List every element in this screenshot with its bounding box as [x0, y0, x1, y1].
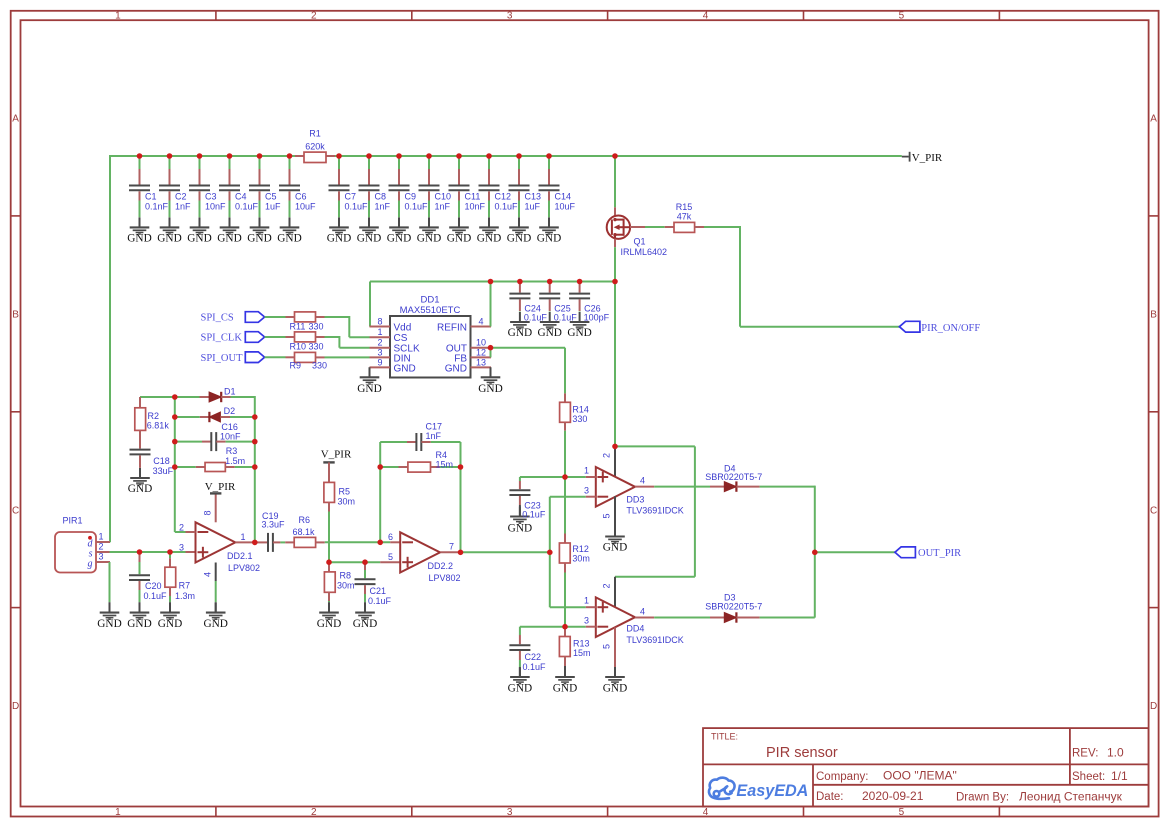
svg-text:LPV802: LPV802 — [429, 573, 461, 583]
svg-text:C22: C22 — [525, 652, 542, 662]
svg-text:C16: C16 — [221, 422, 238, 432]
svg-text:SPI_CS: SPI_CS — [201, 313, 234, 324]
svg-text:R7: R7 — [179, 581, 191, 591]
svg-text:V_PIR: V_PIR — [912, 152, 943, 164]
svg-text:R1: R1 — [309, 129, 321, 139]
svg-text:330: 330 — [572, 414, 587, 424]
svg-text:GND: GND — [158, 618, 182, 630]
svg-text:3: 3 — [507, 807, 513, 818]
svg-text:10: 10 — [476, 338, 486, 348]
svg-text:C21: C21 — [370, 586, 387, 596]
svg-text:Company:: Company: — [816, 771, 868, 783]
svg-text:PIR1: PIR1 — [62, 516, 82, 526]
svg-text:GND: GND — [357, 383, 381, 395]
svg-text:4: 4 — [203, 572, 213, 577]
svg-text:3: 3 — [507, 11, 513, 22]
svg-text:D: D — [1150, 701, 1157, 712]
svg-text:Vdd: Vdd — [394, 323, 412, 334]
svg-text:D: D — [12, 701, 19, 712]
svg-text:C4: C4 — [235, 192, 247, 202]
svg-text:SPI_OUT: SPI_OUT — [201, 353, 244, 364]
svg-text:R10: R10 — [290, 341, 307, 351]
svg-text:10uF: 10uF — [555, 202, 576, 212]
svg-text:GND: GND — [553, 683, 577, 695]
svg-text:GND: GND — [417, 233, 441, 245]
svg-text:620k: 620k — [305, 141, 325, 151]
svg-text:3: 3 — [179, 543, 184, 553]
svg-text:15m: 15m — [573, 648, 591, 658]
svg-text:1.0: 1.0 — [1107, 746, 1124, 760]
svg-text:15m: 15m — [436, 460, 454, 470]
svg-text:GND: GND — [478, 383, 502, 395]
svg-text:4: 4 — [640, 606, 645, 616]
svg-text:1nF: 1nF — [426, 431, 442, 441]
svg-text:R5: R5 — [339, 487, 351, 497]
svg-text:C14: C14 — [555, 192, 572, 202]
svg-text:10nF: 10nF — [465, 202, 486, 212]
svg-text:33uF: 33uF — [153, 466, 174, 476]
svg-text:GND: GND — [277, 233, 301, 245]
svg-text:C12: C12 — [495, 192, 512, 202]
svg-text:2: 2 — [99, 542, 104, 552]
svg-text:330: 330 — [309, 341, 324, 351]
svg-text:3.3uF: 3.3uF — [262, 519, 286, 529]
svg-text:TITLE:: TITLE: — [711, 732, 738, 742]
svg-text:1.3m: 1.3m — [175, 591, 195, 601]
svg-text:47k: 47k — [677, 212, 692, 222]
svg-text:0.1uF: 0.1uF — [523, 662, 547, 672]
svg-text:GND: GND — [387, 233, 411, 245]
svg-text:SBR0220T5-7: SBR0220T5-7 — [705, 472, 762, 482]
svg-text:1: 1 — [241, 532, 246, 542]
svg-text:SBR0220T5-7: SBR0220T5-7 — [705, 601, 762, 611]
svg-text:PIR_ON/OFF: PIR_ON/OFF — [921, 323, 980, 334]
svg-text:5: 5 — [602, 513, 612, 518]
svg-text:GND: GND — [203, 618, 227, 630]
svg-text:5: 5 — [388, 552, 393, 562]
svg-text:100pF: 100pF — [584, 313, 610, 323]
svg-text:GND: GND — [247, 233, 271, 245]
svg-text:8: 8 — [203, 510, 213, 515]
svg-text:C20: C20 — [145, 581, 162, 591]
svg-text:MAX5510ETC: MAX5510ETC — [400, 305, 461, 316]
svg-text:1: 1 — [377, 327, 382, 337]
svg-text:2: 2 — [311, 11, 317, 22]
svg-text:C8: C8 — [375, 192, 387, 202]
svg-text:10nF: 10nF — [205, 202, 226, 212]
svg-text:GND: GND — [508, 327, 532, 339]
svg-text:GND: GND — [357, 233, 381, 245]
svg-text:C1: C1 — [145, 192, 157, 202]
svg-text:R2: R2 — [148, 411, 160, 421]
svg-text:C11: C11 — [465, 192, 481, 202]
svg-text:R6: R6 — [299, 515, 311, 525]
svg-text:EasyEDA: EasyEDA — [736, 782, 808, 800]
svg-text:GND: GND — [327, 233, 351, 245]
svg-text:V_PIR: V_PIR — [321, 449, 352, 461]
svg-text:R11: R11 — [290, 321, 306, 331]
svg-text:1nF: 1nF — [375, 202, 391, 212]
svg-text:GND: GND — [445, 363, 467, 374]
svg-text:6.81k: 6.81k — [147, 421, 170, 431]
svg-text:GND: GND — [537, 327, 561, 339]
svg-text:4: 4 — [703, 11, 709, 22]
svg-text:R13: R13 — [573, 638, 590, 648]
svg-text:2: 2 — [602, 453, 612, 458]
svg-text:C7: C7 — [345, 192, 357, 202]
svg-text:C6: C6 — [295, 192, 307, 202]
svg-text:DD4: DD4 — [626, 624, 644, 634]
svg-text:2: 2 — [377, 338, 382, 348]
svg-text:8: 8 — [377, 317, 382, 327]
svg-text:TLV3691IDCK: TLV3691IDCK — [626, 635, 683, 645]
svg-text:1: 1 — [584, 466, 589, 476]
svg-text:3: 3 — [584, 616, 589, 626]
svg-text:C17: C17 — [426, 422, 443, 432]
svg-text:1uF: 1uF — [525, 202, 541, 212]
svg-text:Леонид Степанчук: Леонид Степанчук — [1019, 790, 1123, 804]
svg-text:A: A — [12, 114, 19, 125]
svg-text:TLV3691IDCK: TLV3691IDCK — [626, 505, 683, 515]
svg-text:30m: 30m — [338, 497, 356, 507]
svg-text:4: 4 — [478, 317, 483, 327]
svg-text:1uF: 1uF — [265, 202, 281, 212]
svg-text:D2: D2 — [224, 406, 236, 416]
svg-text:R12: R12 — [572, 544, 589, 554]
svg-text:B: B — [12, 309, 19, 320]
svg-text:C3: C3 — [205, 192, 217, 202]
svg-text:C5: C5 — [265, 192, 277, 202]
svg-text:2: 2 — [311, 807, 317, 818]
svg-text:GND: GND — [127, 233, 151, 245]
svg-text:Drawn By:: Drawn By: — [956, 792, 1009, 804]
svg-text:1nF: 1nF — [175, 202, 191, 212]
svg-text:3: 3 — [99, 552, 104, 562]
svg-text:SPI_CLK: SPI_CLK — [201, 333, 243, 344]
svg-text:0.1uF: 0.1uF — [522, 510, 546, 520]
svg-text:R15: R15 — [676, 202, 693, 212]
svg-text:R3: R3 — [226, 446, 238, 456]
svg-text:68.1k: 68.1k — [293, 527, 316, 537]
svg-text:GND: GND — [317, 618, 341, 630]
svg-text:DD1: DD1 — [420, 295, 439, 306]
svg-text:D1: D1 — [224, 387, 236, 397]
svg-text:2: 2 — [602, 583, 612, 588]
svg-text:GND: GND — [537, 233, 561, 245]
svg-text:GND: GND — [127, 618, 151, 630]
svg-text:C13: C13 — [525, 192, 542, 202]
svg-text:GND: GND — [603, 541, 627, 553]
svg-text:30m: 30m — [572, 554, 590, 564]
svg-text:1/1: 1/1 — [1111, 769, 1128, 783]
svg-text:0.1uF: 0.1uF — [235, 202, 259, 212]
svg-text:GND: GND — [157, 233, 181, 245]
svg-text:0.1uF: 0.1uF — [144, 591, 168, 601]
svg-text:PIR sensor: PIR sensor — [766, 745, 838, 761]
svg-text:0.1nF: 0.1nF — [145, 202, 169, 212]
svg-text:ООО "ЛЕМА": ООО "ЛЕМА" — [883, 769, 957, 783]
svg-text:C9: C9 — [405, 192, 417, 202]
svg-text:IRLML6402: IRLML6402 — [621, 247, 668, 257]
svg-text:OUT_PIR: OUT_PIR — [918, 548, 961, 559]
svg-text:g: g — [88, 558, 93, 569]
svg-text:Sheet:: Sheet: — [1072, 771, 1105, 783]
svg-text:5: 5 — [602, 644, 612, 649]
svg-text:C18: C18 — [153, 456, 170, 466]
svg-text:R8: R8 — [340, 570, 352, 580]
svg-text:4: 4 — [640, 476, 645, 486]
svg-text:0.1uF: 0.1uF — [405, 202, 429, 212]
svg-text:GND: GND — [507, 233, 531, 245]
svg-text:GND: GND — [508, 683, 532, 695]
svg-text:REV:: REV: — [1072, 748, 1098, 760]
svg-text:GND: GND — [97, 618, 121, 630]
svg-text:Q1: Q1 — [634, 237, 646, 247]
svg-text:GND: GND — [447, 233, 471, 245]
svg-text:GND: GND — [187, 233, 211, 245]
svg-text:330: 330 — [309, 321, 324, 331]
svg-text:GND: GND — [128, 483, 152, 495]
svg-text:CS: CS — [394, 333, 408, 344]
svg-text:330: 330 — [312, 361, 327, 371]
svg-text:0.1uF: 0.1uF — [495, 202, 519, 212]
svg-text:1nF: 1nF — [435, 202, 451, 212]
svg-text:2: 2 — [179, 523, 184, 533]
svg-text:GND: GND — [353, 618, 377, 630]
svg-text:DD2.1: DD2.1 — [227, 551, 253, 561]
svg-text:V_PIR: V_PIR — [205, 481, 236, 493]
svg-text:DD2.2: DD2.2 — [428, 561, 454, 571]
svg-text:C10: C10 — [435, 192, 452, 202]
svg-text:C2: C2 — [175, 192, 187, 202]
svg-text:7: 7 — [449, 542, 454, 552]
svg-text:3: 3 — [584, 486, 589, 496]
svg-text:GND: GND — [603, 683, 627, 695]
svg-text:R9: R9 — [290, 361, 302, 371]
svg-text:0.1uF: 0.1uF — [368, 596, 392, 606]
svg-text:A: A — [1150, 114, 1157, 125]
svg-text:3: 3 — [377, 347, 382, 357]
svg-text:R4: R4 — [436, 450, 448, 460]
svg-text:GND: GND — [567, 327, 591, 339]
svg-text:GND: GND — [508, 522, 532, 534]
svg-text:10uF: 10uF — [295, 202, 316, 212]
svg-text:REFIN: REFIN — [437, 323, 467, 334]
svg-text:10nF: 10nF — [220, 432, 241, 442]
svg-text:5: 5 — [899, 807, 905, 818]
svg-text:2020-09-21: 2020-09-21 — [862, 789, 924, 803]
svg-text:12: 12 — [476, 347, 486, 357]
svg-text:1: 1 — [115, 11, 121, 22]
svg-text:C: C — [12, 505, 19, 516]
svg-text:Date:: Date: — [816, 791, 844, 803]
svg-text:1: 1 — [99, 532, 104, 542]
svg-text:GND: GND — [477, 233, 501, 245]
svg-text:LPV802: LPV802 — [228, 563, 260, 573]
svg-text:4: 4 — [703, 807, 709, 818]
svg-text:1: 1 — [115, 807, 121, 818]
svg-text:C: C — [1150, 505, 1157, 516]
svg-text:13: 13 — [476, 357, 486, 367]
svg-text:1.5m: 1.5m — [225, 456, 245, 466]
svg-text:GND: GND — [217, 233, 241, 245]
svg-text:0.1uF: 0.1uF — [345, 202, 369, 212]
svg-text:GND: GND — [394, 363, 416, 374]
svg-text:9: 9 — [377, 357, 382, 367]
svg-text:5: 5 — [899, 11, 905, 22]
svg-text:1: 1 — [584, 596, 589, 606]
svg-text:B: B — [1150, 309, 1157, 320]
svg-text:6: 6 — [388, 532, 393, 542]
svg-text:DD3: DD3 — [626, 494, 644, 504]
svg-text:30m: 30m — [337, 581, 355, 591]
